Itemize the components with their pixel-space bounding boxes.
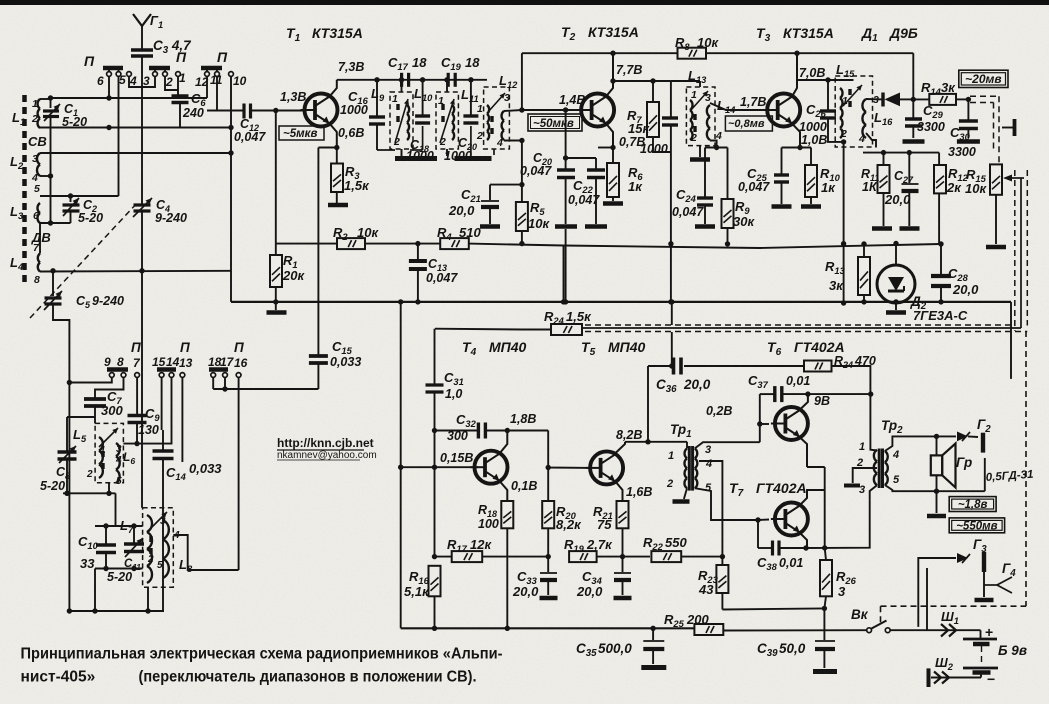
capacitor C39 [823, 608, 825, 640]
IF box L9 [390, 92, 413, 149]
rail corner down [912, 53, 914, 99]
wire C22 top [566, 157, 596, 159]
trimmer C1 [43, 109, 59, 112]
resistor R16 [429, 566, 441, 597]
wire Tr2 tap5 down [885, 485, 985, 491]
node base T1 [273, 108, 278, 113]
wire switch right [890, 629, 927, 631]
wire R23 R26 bottom [722, 608, 824, 609]
wire L4 top [39, 223, 41, 254]
IF box L15-L16 [835, 76, 872, 147]
wire C10C11 top [95, 525, 143, 527]
capacitor C27 [908, 153, 910, 183]
resistor R9 [727, 148, 729, 200]
collector T5 [615, 442, 625, 454]
wire contact2 jog [165, 76, 178, 90]
main bus [231, 301, 1011, 303]
wire base down R1 [275, 111, 277, 244]
transistor T6 [775, 407, 808, 440]
emitter T2 [606, 124, 613, 148]
coil box L5-L6 [95, 423, 123, 482]
vert common left [400, 302, 402, 628]
capacitor C20 [557, 168, 575, 171]
resistor R5 [516, 202, 528, 231]
wire L16 tap3 [866, 98, 883, 100]
wire L12 tap3 [504, 110, 522, 111]
wire contact16 [238, 378, 240, 571]
emitter T5 [615, 481, 623, 501]
wire R25 to switch [723, 629, 866, 631]
switch contacts 4-3-2-1 [127, 72, 132, 77]
coil L6 [116, 443, 120, 483]
collector T3 [792, 53, 797, 96]
dashed link bottom [881, 605, 1027, 607]
coil L2 [37, 153, 40, 176]
variable C4 [134, 203, 151, 206]
wire contact7b [136, 378, 138, 416]
capacitor C38 [757, 520, 759, 548]
wire C1 column [50, 98, 52, 108]
wire R24 node [521, 243, 523, 244]
capacitor C34 [622, 557, 624, 572]
transistor T3 [767, 94, 800, 127]
wire T2 emitter node [598, 147, 613, 149]
capacitor C22 [587, 168, 605, 171]
wire interstage [548, 431, 592, 468]
IF box L11-L12 [484, 87, 510, 149]
IF box L10 [436, 92, 458, 149]
coil L7b [147, 515, 152, 583]
capacitor C30 [967, 99, 969, 120]
switch contacts 12-11-10 [201, 66, 222, 71]
coil box L7-L8 [143, 508, 174, 587]
coil L13 [690, 100, 693, 140]
Tr2 core [878, 449, 881, 489]
R15 ground [995, 195, 997, 244]
coil L8 [163, 520, 169, 578]
capacitor C32 [432, 428, 437, 433]
trimmer C11 [133, 526, 135, 543]
wire C9 down [136, 423, 138, 444]
transistor T2 [581, 94, 614, 127]
resistor R7 [652, 81, 654, 102]
wire C7 box [94, 406, 96, 423]
wire antenna down [141, 56, 143, 204]
lower switch bars [107, 367, 128, 372]
ground tank2 [455, 156, 492, 161]
bus right corner [1010, 302, 1012, 379]
capacitor C33 [547, 557, 549, 572]
resistor R17 [452, 551, 483, 562]
collector T1 wire [330, 80, 337, 97]
transformer Tr1 primary [684, 448, 687, 488]
box ~20мВ [959, 70, 1008, 87]
box ~5мкВ [279, 126, 324, 140]
coil L14 [707, 105, 710, 140]
capacitor C19 [447, 73, 450, 87]
wire L16 tap4 [866, 133, 876, 148]
wire contact15 [161, 378, 163, 431]
resistor R4 [440, 238, 469, 249]
box ~550мВ [949, 518, 1004, 533]
pot wiper arrow [1009, 177, 1024, 179]
resistor R24b [804, 361, 832, 372]
IF box L13-L14 [686, 87, 715, 146]
wire Tr2 tap4 up [885, 436, 956, 451]
capacitor C9 [128, 414, 147, 418]
ground tank1 [377, 149, 395, 151]
emitter T1 wire [330, 124, 337, 148]
wire contact17 [224, 378, 226, 390]
capacitor C36 [672, 358, 676, 375]
capacitor C12 [207, 110, 243, 112]
wire C36 line [648, 365, 672, 367]
wire C4 down [141, 211, 143, 508]
wire contact14 [123, 378, 171, 444]
resistor R13 [863, 244, 865, 257]
capacitor C25 [781, 148, 783, 175]
page top border [0, 0, 1049, 5]
wire L3 bottom [40, 222, 71, 224]
wire AVC line [276, 243, 337, 245]
wire box bottom [108, 483, 110, 494]
wire contact8 [95, 378, 124, 399]
box ~0,8мВ [725, 116, 772, 131]
switch contacts 6-5 [103, 66, 123, 71]
speaker ground [936, 491, 938, 513]
capacitor C3 [131, 48, 153, 52]
shield dashes [585, 324, 1015, 326]
wire C6 bottom [179, 103, 181, 128]
transformer Tr1 secondary [695, 448, 698, 488]
box ~1,8В [949, 497, 996, 512]
capacitor C10 [105, 526, 107, 544]
capacitor C31 [434, 329, 436, 384]
resistor R20 [547, 467, 549, 501]
wire L13 top [699, 81, 701, 87]
jack G4 [983, 572, 985, 597]
wiper line down [1020, 178, 1022, 328]
Tr1 core [688, 446, 691, 491]
wire contact9 [69, 378, 111, 383]
capacitor C35 [650, 626, 655, 631]
collector T6 [800, 394, 808, 410]
top rail [522, 52, 678, 54]
trimmer C2 [63, 203, 80, 206]
wire contact5 down [118, 76, 120, 196]
wire collector T2 right [613, 80, 671, 82]
bottom bus [401, 627, 695, 629]
wire Tr1 tap5 [695, 488, 758, 520]
resistor R10 [810, 148, 812, 166]
wire output node [806, 547, 825, 549]
resistor R19 [569, 551, 597, 562]
bus dots [398, 299, 403, 304]
wire C18 top [422, 80, 424, 116]
dashed link down [1025, 331, 1027, 606]
transformer Tr2 secondary [885, 451, 888, 485]
wire L15 top [853, 76, 855, 80]
capacitor C24 [704, 148, 706, 198]
lower switch circles [109, 373, 114, 378]
capacitor C29 [912, 99, 914, 119]
wire L4 bottom [40, 270, 231, 273]
wire T4 base [401, 466, 478, 468]
ground L13 [699, 146, 701, 157]
bus right dots [938, 241, 943, 246]
vert x563 to bus [563, 246, 565, 302]
wire 17-C15 [213, 388, 318, 390]
jack G3 [957, 553, 968, 563]
resistor R23 [716, 565, 728, 593]
resistor R22 [651, 551, 681, 562]
wire L9 top [401, 80, 403, 92]
speaker Gr [931, 455, 942, 475]
wire L2 mid [40, 175, 51, 177]
wire Tr2 tap2 [853, 468, 877, 483]
wire L2 top [40, 152, 231, 154]
transistor T7 [775, 503, 808, 536]
switch Вк [867, 628, 872, 633]
coil L12 [502, 111, 504, 140]
capacitor C15 [317, 355, 319, 366]
wire C5 down [53, 304, 69, 611]
resistor R25 [694, 624, 723, 635]
D2 ground [895, 302, 897, 310]
wire G3 step2 [926, 568, 928, 630]
resistor R2 [337, 238, 365, 249]
wire L12 tap4 [504, 140, 522, 142]
wire det load bus [863, 152, 939, 154]
wire L14 tap4 [710, 141, 717, 148]
wire box L8 bottom [147, 587, 149, 611]
wire collector T3 right [797, 79, 854, 81]
wire contact1 down [177, 76, 179, 96]
wire G3 step1 [918, 558, 956, 627]
wire contact11 down [217, 76, 243, 111]
coil L11 [487, 105, 489, 140]
wire contact12 down [206, 76, 208, 98]
coil L1 [38, 99, 40, 128]
wire C2 column [70, 196, 72, 202]
shield line solid [582, 327, 1021, 329]
capacitor C7 [84, 397, 106, 401]
resistor R14 [913, 98, 929, 100]
wire L1 bottom [40, 127, 231, 129]
variable C5 [52, 271, 54, 296]
resistor R6 [612, 148, 614, 164]
transistor T1 [305, 94, 338, 127]
wire L10 top [446, 80, 448, 92]
wire T6 base [759, 394, 761, 442]
transformer Tr2 primary [874, 450, 877, 486]
wire contact6 down [108, 76, 110, 98]
coil L16 [862, 99, 866, 138]
capacitor C17 [400, 73, 403, 87]
resistor R12 [938, 153, 940, 165]
wire lower left bottom [94, 569, 96, 612]
wire Tr1 tap3 [695, 442, 760, 448]
Tr1 ground [684, 488, 687, 499]
resistor R18 [501, 501, 513, 528]
transistor T5 [590, 451, 623, 484]
emitter T7 [800, 533, 808, 549]
wire contact3 jog [142, 76, 155, 87]
wire C20t bottom [470, 126, 472, 150]
capacitor C14 [153, 449, 174, 453]
antenna G1 [133, 14, 151, 26]
wire L1 top [40, 98, 51, 100]
wire contact4 jog [129, 76, 142, 87]
wire battery top [963, 629, 981, 631]
coil L15 [840, 88, 843, 138]
wire bus to C36 [671, 302, 673, 325]
ground R3 [336, 192, 338, 203]
box ~50мкВ [528, 114, 582, 131]
capacitor C18 [415, 114, 430, 117]
capacitor C23 [670, 81, 672, 117]
wire C8 bottom [66, 459, 68, 493]
wire emitter T3 node [782, 147, 812, 149]
resistor R3 [336, 148, 338, 164]
wire L10 bottom [446, 149, 448, 156]
collector T4 [500, 431, 508, 454]
coil L3 [37, 203, 40, 223]
capacitor C26 [827, 80, 829, 110]
emitter T3 [792, 124, 800, 148]
wire L15 tap2 [840, 138, 844, 142]
capacitor C37 [760, 393, 774, 395]
capacitor C6 [177, 76, 179, 96]
capacitor C13 [415, 241, 420, 246]
resistor R11 [883, 153, 885, 165]
wire C36 down [647, 366, 649, 442]
capacitor C20t [463, 114, 478, 117]
collector T2 [606, 53, 613, 96]
resistor R1 [275, 244, 277, 255]
wire emitter to C15 [318, 147, 336, 149]
gang dashed link [30, 202, 138, 318]
wire T7 base [758, 519, 769, 522]
trimmer C8 [66, 417, 68, 451]
wire tap5 [40, 195, 119, 197]
wire L14 tap3 [710, 103, 764, 110]
wire C24 R9 bus [705, 147, 728, 149]
coil L9 [407, 105, 409, 140]
coil L4 [38, 254, 40, 272]
wire C20t top [470, 80, 472, 116]
resistor R21 [617, 501, 629, 528]
coil L10 [452, 105, 454, 140]
wire bias to bus [565, 229, 567, 302]
bias column T2 [565, 110, 567, 170]
coil L5 [99, 437, 103, 478]
wire tap4 right [173, 535, 238, 570]
wire L15 tap2 down [843, 142, 845, 244]
diode D1 [881, 93, 884, 107]
capacitor C21 [490, 184, 522, 186]
ferrite rod [22, 95, 27, 286]
resistor R15 pot [990, 164, 1002, 194]
resistor R26 [825, 548, 826, 560]
wire contact13 [181, 378, 183, 463]
collector T7 [800, 490, 825, 506]
bus gnd R1 [273, 299, 278, 304]
dashed wiper pair down [1014, 170, 1016, 331]
wire Tr2 tap3 [825, 485, 877, 548]
emitter T6 [800, 437, 808, 467]
emitter T4 [500, 481, 508, 501]
wire C10C11 bottom [95, 568, 143, 570]
wire L9 bottom [401, 149, 403, 156]
diode D2 zener [895, 244, 897, 266]
wire contact10 down [230, 76, 232, 302]
resistor R8 [678, 48, 707, 59]
dashed AGC pair [970, 95, 999, 97]
wire R16 R17 node [432, 554, 437, 559]
capacitor C28 [940, 244, 942, 275]
wire Tr1 tap4 [699, 461, 722, 557]
wire AGC column [521, 53, 523, 110]
wire contact18 [212, 378, 214, 390]
capacitor C16 [376, 80, 378, 116]
terminal T right [1002, 127, 1013, 129]
transistor T4 [475, 451, 508, 484]
